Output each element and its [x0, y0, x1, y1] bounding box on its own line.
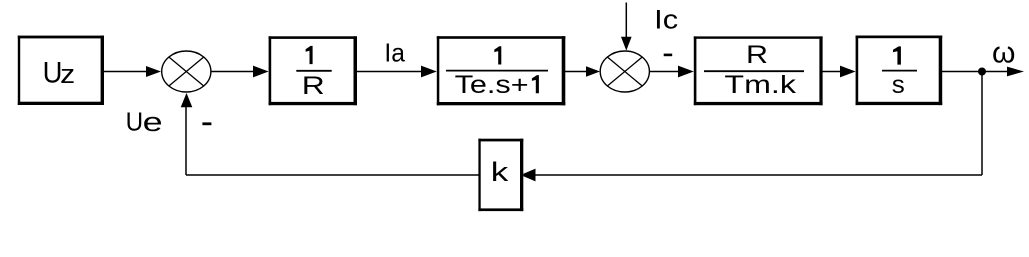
- minus sign at J1 feedback: [202, 122, 211, 125]
- arrowhead into J2: [586, 66, 600, 76]
- svg-text:Ic: Ic: [654, 5, 678, 35]
- svg-text:e: e: [143, 109, 163, 137]
- arrowhead into 1/R: [253, 66, 269, 78]
- node dot on output: [978, 68, 986, 76]
- wire feedback right segment to block k: [533, 174, 982, 176]
- wire Ic disturbance input from top into J2: [625, 3, 627, 39]
- svg-text:ω: ω: [992, 37, 1015, 70]
- svg-text:k: k: [491, 157, 509, 187]
- arrowhead into k: [521, 169, 536, 182]
- wire R/(Tm.k) to block 1/s: [822, 71, 843, 73]
- block k: [478, 139, 523, 211]
- arrowhead up into J1: [181, 93, 193, 107]
- block 1/s: [856, 36, 943, 106]
- summing junction J2: [600, 51, 649, 92]
- svg-text:R: R: [302, 72, 325, 100]
- block 1/(Te.s+1): [437, 36, 566, 105]
- block Uz (reference input): [18, 36, 104, 105]
- svg-text:s: s: [892, 71, 905, 99]
- minus sign at J2: [664, 54, 673, 57]
- arrowhead into J1: [146, 66, 161, 77]
- svg-text:Tm.k: Tm.k: [724, 71, 796, 99]
- svg-text:Te.s+: Te.s+: [455, 71, 529, 99]
- svg-text:U: U: [126, 109, 144, 137]
- arrowhead into 1/s: [840, 66, 856, 78]
- output arrowhead: [1007, 67, 1024, 77]
- arrowhead into 1/(Te.s+1): [421, 66, 437, 78]
- wire node down: [981, 72, 983, 176]
- svg-text:R: R: [746, 41, 768, 69]
- wire 1/s to output: [941, 71, 1009, 73]
- svg-text:z: z: [60, 59, 75, 89]
- wire J2 to block R/(Tm.k): [650, 71, 681, 73]
- summing junction J1: [162, 51, 211, 92]
- block R/(Tm.k): [694, 36, 823, 105]
- block 1/R: [269, 36, 357, 105]
- wire Uz to summing junction J1: [104, 71, 149, 73]
- svg-text:Ia: Ia: [384, 37, 405, 67]
- wire k to left vertical: [186, 174, 480, 176]
- arrowhead into R/(Tm.k): [678, 66, 694, 78]
- wire J1 to block 1/R: [211, 71, 256, 73]
- wire 1/(Te.s+1) to summing junction J2: [565, 71, 589, 73]
- wire feedback left vertical up to J1: [185, 105, 187, 175]
- wire 1/R to block 1/(Te.s+1): [357, 71, 424, 73]
- arrowhead down into J2: [621, 37, 632, 51]
